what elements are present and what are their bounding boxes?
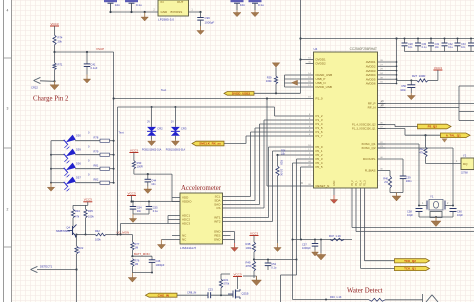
svg-text:R78: R78 [94,136,99,140]
svg-text:SMCLK_RX_xx: SMCLK_RX_xx [199,142,221,146]
svg-text:BATT_MON: BATT_MON [134,252,150,256]
svg-text:C55: C55 [153,205,158,209]
svg-text:R77: R77 [135,242,140,246]
svg-text:R47 1.1K: R47 1.1K [329,234,341,238]
svg-text:BYPASS: BYPASS [171,10,183,14]
svg-text:DVDD_USB: DVDD_USB [316,85,332,89]
svg-text:1000pF: 1000pF [205,20,215,24]
svg-text:0.1u: 0.1u [153,209,159,213]
svg-text:VCC3: VCC3 [250,231,258,235]
svg-text:1M: 1M [135,245,139,249]
svg-text:0.1u: 0.1u [136,3,142,7]
svg-text:IN: IN [161,0,164,4]
svg-text:2: 2 [7,208,9,212]
svg-text:3: 3 [7,107,9,111]
svg-text:100R: 100R [137,164,143,168]
svg-text:UC_MON: UC_MON [117,230,130,234]
svg-text:100n: 100n [400,88,406,92]
svg-text:10pF: 10pF [407,213,413,217]
svg-text:47k: 47k [75,215,80,219]
svg-text:100n: 100n [406,179,412,183]
svg-text:GND: GND [333,180,336,186]
svg-text:DQ: DQ [463,162,468,166]
svg-text:DCOUPL: DCOUPL [363,157,376,161]
svg-text:C60: C60 [457,210,462,214]
svg-text:10n: 10n [115,3,120,7]
svg-text:P1_4_XOSC32K_Q2: P1_4_XOSC32K_Q2 [352,124,376,127]
svg-text:R_BIAS: R_BIAS [365,169,376,173]
svg-text:R74: R74 [58,36,63,40]
svg-text:P1_7: P1_7 [316,134,323,138]
svg-text:1M: 1M [135,262,139,266]
svg-text:Q4: Q4 [66,225,70,229]
svg-text:RESET_N: RESET_N [316,184,330,188]
svg-text:0.1u: 0.1u [448,46,453,49]
svg-text:VCC3: VCC3 [434,66,442,70]
svg-text:P2_1: P2_1 [355,180,358,186]
svg-text:A_TAL_Q1: A_TAL_Q1 [446,134,461,138]
svg-text:P1_0: P1_0 [316,97,323,101]
svg-text:R22: R22 [79,246,84,250]
svg-text:R79: R79 [94,150,99,154]
svg-text:U4: U4 [314,47,318,51]
svg-text:DVDD_USB3: DVDD_USB3 [232,92,251,96]
svg-text:32768: 32768 [461,171,468,174]
svg-text:P0_5: P0_5 [316,165,323,169]
svg-text:Y2: Y2 [463,153,467,157]
svg-text:C54: C54 [137,205,142,209]
svg-text:D57: D57 [76,176,81,180]
svg-text:RF_N: RF_N [368,106,376,110]
svg-text:C39: C39 [406,175,411,179]
svg-text:0.1u: 0.1u [422,46,427,49]
svg-text:1000pF: 1000pF [156,263,165,267]
svg-text:R42: R42 [95,229,100,233]
svg-text:20k: 20k [58,39,63,43]
svg-text:10n: 10n [461,46,466,49]
svg-text:VCC3: VCC3 [84,198,92,202]
svg-text:LIS344ALH: LIS344ALH [180,246,196,250]
svg-text:1000pF: 1000pF [302,246,311,250]
svg-text:2V: 2V [147,121,150,124]
svg-text:0.1u: 0.1u [271,265,277,269]
svg-text:R46 1.1K: R46 1.1K [330,295,342,299]
svg-text:470K: 470K [246,264,252,268]
svg-text:Accelerometer: Accelerometer [181,185,222,192]
svg-text:10n: 10n [435,46,440,49]
svg-text:CR2: CR2 [157,126,163,130]
svg-text:R48: R48 [246,242,251,246]
svg-text:GND: GND [161,10,169,14]
svg-text:C44: C44 [151,179,156,183]
svg-text:C57: C57 [302,243,307,247]
svg-text:10pF: 10pF [457,213,463,217]
svg-text:100k: 100k [88,215,94,219]
svg-text:0.1uF: 0.1uF [91,66,98,70]
svg-text:R76: R76 [135,259,140,263]
svg-text:VCC3: VCC3 [233,272,241,276]
svg-text:100k: 100k [246,246,252,250]
svg-text:100k: 100k [95,237,101,241]
svg-text:VCC3: VCC3 [50,22,58,26]
svg-text:R71: R71 [58,62,63,66]
svg-text:100k: 100k [266,79,272,83]
svg-text:10.0K: 10.0K [279,169,283,176]
svg-text:DETECT1: DETECT1 [40,265,53,269]
svg-text:R39: R39 [267,76,272,80]
svg-text:R81: R81 [94,164,99,168]
svg-text:PGB1010603-01A: PGB1010603-01A [166,149,186,152]
svg-text:Text: Text [161,88,166,92]
svg-text:VCC3: VCC3 [130,148,138,152]
svg-text:R21: R21 [224,278,229,282]
svg-text:CR3: CR3 [181,126,187,130]
svg-text:Text: Text [119,131,124,135]
svg-text:C23: C23 [208,288,213,292]
svg-text:TCK_Q2: TCK_Q2 [404,259,416,263]
svg-text:10n: 10n [151,182,156,186]
svg-text:C46: C46 [156,259,161,263]
svg-text:P2_Q2: P2_Q2 [428,125,438,129]
svg-text:D50: D50 [76,134,81,138]
svg-text:R52: R52 [419,147,424,151]
svg-text:CC2540F256RHAT: CC2540F256RHAT [350,47,377,51]
svg-text:DVDD2: DVDD2 [316,62,327,66]
svg-text:R40: R40 [383,176,388,180]
svg-text:R29: R29 [279,160,283,165]
svg-text:P1_3_XOSC32K_Q1: P1_3_XOSC32K_Q1 [352,128,376,131]
svg-text:Y1: Y1 [430,195,434,199]
svg-text:AVDD6: AVDD6 [366,82,376,86]
svg-text:D59: D59 [76,148,81,152]
svg-text:47k: 47k [419,151,424,155]
svg-text:P2_4: P2_4 [360,180,363,186]
svg-text:XOSC_Q2: XOSC_Q2 [361,146,376,150]
svg-text:CHG_IN: CHG_IN [158,293,169,297]
svg-text:Q21B: Q21B [242,291,249,295]
svg-text:C58: C58 [407,210,412,214]
svg-text:MMBT3904: MMBT3904 [56,229,70,233]
svg-text:C52: C52 [271,262,276,266]
svg-text:VCC3: VCC3 [127,191,135,195]
svg-text:270k: 270k [224,282,230,286]
svg-text:P2_3: P2_3 [364,180,367,186]
svg-text:R82: R82 [94,178,99,182]
svg-text:C50: C50 [401,84,406,88]
svg-text:PGB1010603-01A: PGB1010603-01A [142,149,162,152]
svg-text:Charge Pin 2: Charge Pin 2 [33,96,69,103]
svg-text:10n: 10n [240,3,245,7]
svg-text:4: 4 [7,9,9,13]
svg-text:GND: GND [214,238,222,242]
svg-text:2V: 2V [171,121,174,124]
svg-text:R34: R34 [75,209,80,213]
svg-text:0.1u: 0.1u [258,3,264,7]
svg-text:CR22: CR22 [31,85,38,89]
svg-text:D56: D56 [76,162,81,166]
svg-text:OUT: OUT [177,0,184,4]
svg-text:R35: R35 [88,209,93,213]
svg-text:10n: 10n [408,46,413,49]
svg-text:R49: R49 [246,260,251,264]
svg-text:10n: 10n [137,209,142,213]
svg-text:ADC3: ADC3 [182,222,190,226]
svg-text:VDDIO: VDDIO [182,200,192,204]
svg-text:TCK_Q1: TCK_Q1 [404,267,416,271]
svg-text:C41: C41 [91,63,96,67]
svg-text:LP2985-5.0: LP2985-5.0 [158,17,174,21]
svg-text:CR8_IN: CR8_IN [187,291,196,295]
svg-text:Water Detect: Water Detect [347,288,383,295]
svg-text:VSUP: VSUP [96,47,104,51]
svg-text:P2_2: P2_2 [351,180,354,186]
svg-text:INT2: INT2 [214,220,221,224]
svg-text:CS: CS [216,206,220,210]
svg-text:R27 100R: R27 100R [412,74,425,78]
svg-text:R33: R33 [137,161,142,165]
